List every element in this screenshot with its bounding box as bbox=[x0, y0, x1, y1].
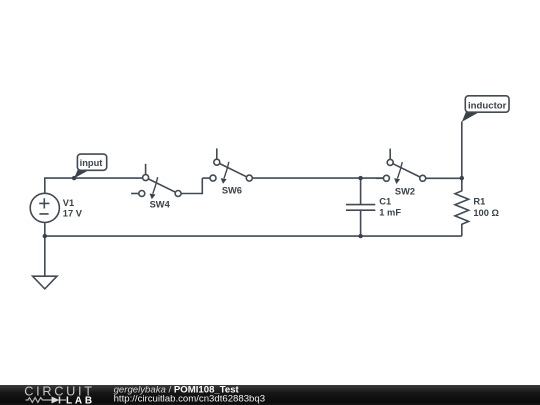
wire bbox=[45, 178, 143, 193]
svg-text:C1: C1 bbox=[379, 197, 391, 207]
svg-text:17 V: 17 V bbox=[63, 209, 83, 219]
svg-text:input: input bbox=[80, 158, 103, 168]
wire bbox=[426, 177, 462, 179]
node flag input bbox=[72, 154, 107, 180]
svg-text:1 mF: 1 mF bbox=[379, 208, 401, 218]
wire bbox=[181, 178, 202, 193]
svg-text:SW6: SW6 bbox=[222, 185, 242, 195]
svg-text:SW4: SW4 bbox=[150, 200, 171, 210]
voltage source V1 bbox=[30, 193, 59, 222]
label R1 value bbox=[473, 197, 499, 218]
svg-text:R1: R1 bbox=[473, 197, 485, 207]
svg-text:inductor: inductor bbox=[468, 100, 507, 111]
node junction C1 top bbox=[358, 176, 362, 180]
resistor R1 bbox=[455, 178, 469, 236]
label V1 value bbox=[63, 198, 83, 219]
label C1 value bbox=[379, 197, 401, 218]
switch SW6 bbox=[202, 148, 252, 183]
logo resistor squiggle bbox=[26, 398, 66, 403]
capacitor C1 bbox=[346, 178, 375, 236]
svg-text:V1: V1 bbox=[63, 198, 74, 208]
logo diode bbox=[52, 397, 60, 404]
node junction V1 bottom bbox=[43, 234, 47, 238]
node junction C1 bottom bbox=[358, 234, 362, 238]
svg-text:SW2: SW2 bbox=[395, 187, 415, 197]
switch SW4 bbox=[131, 164, 181, 199]
wire bbox=[44, 223, 46, 277]
footer bar bbox=[0, 385, 540, 405]
node flag inductor bbox=[462, 96, 509, 178]
svg-text:http://circuitlab.com/cn3dt628: http://circuitlab.com/cn3dt62883bq3 bbox=[114, 394, 265, 405]
wire bbox=[45, 235, 462, 237]
svg-text:LAB: LAB bbox=[66, 395, 95, 405]
node junction R1 top bbox=[460, 176, 464, 180]
wire bbox=[252, 177, 383, 179]
switch SW2 bbox=[376, 149, 426, 184]
svg-text:100 Ω: 100 Ω bbox=[473, 208, 499, 218]
ground bbox=[33, 276, 57, 289]
